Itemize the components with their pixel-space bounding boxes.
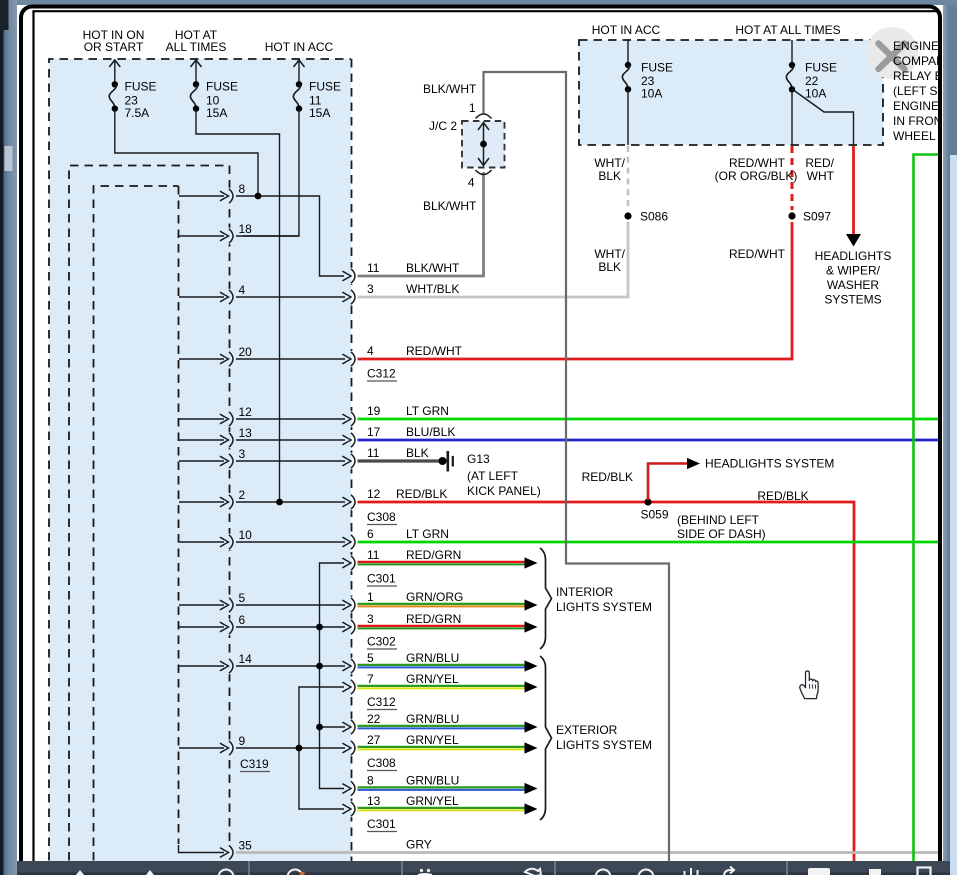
wire BLK/WHT	[358, 172, 484, 276]
fuse 11 15A	[293, 60, 341, 120]
wire RED/WHT to headlights arrow	[846, 146, 861, 247]
splice S097	[788, 210, 831, 224]
label HEADLIGHTS & WIPER/WASHER SYSTEMS	[815, 249, 892, 307]
label BLK/WHT (above J/C2)	[423, 82, 477, 96]
svg-text:(OR ORG/BLK): (OR ORG/BLK)	[715, 169, 798, 183]
label RED/WHT (below S097)	[729, 247, 786, 261]
svg-text:8: 8	[239, 182, 246, 196]
label 12 RED/BLK	[367, 487, 447, 501]
wire GRN/YEL 27	[358, 747, 525, 750]
svg-text:GRN/YEL: GRN/YEL	[406, 672, 459, 686]
svg-text:C302: C302	[367, 635, 396, 649]
wire fuse23 to node row8	[115, 109, 258, 196]
label 22 GRN/BLU	[367, 712, 459, 726]
connector C319 pin 12	[179, 405, 252, 427]
label HOT IN ON OR START	[83, 28, 145, 54]
svg-text:5: 5	[367, 651, 374, 665]
wire GRN/YEL 7	[358, 686, 525, 689]
label RED/BLK (right of S059)	[757, 489, 808, 503]
connector label C308 y=516.5	[367, 510, 397, 525]
label RED/BLK (left of S059)	[582, 470, 633, 484]
connector C319 pin 10	[179, 528, 252, 550]
ground G13	[439, 451, 491, 472]
svg-text:FUSE: FUSE	[206, 80, 238, 94]
svg-text:BLU/BLK: BLU/BLK	[406, 425, 455, 439]
svg-text:9: 9	[239, 734, 246, 748]
wire GRN/BLU 8	[358, 787, 525, 790]
exterior lights arrows	[525, 660, 538, 814]
svg-text:S097: S097	[803, 210, 831, 224]
label 1 GRN/ORG	[367, 590, 463, 604]
connector C319 pin 4	[179, 283, 246, 305]
wire RED to HEADLIGHTS SYSTEM	[648, 458, 700, 500]
connector arc right y=563	[343, 555, 360, 571]
wire row y=748	[236, 747, 345, 749]
label ENGINE COMPARTMENT RELAY BOX	[893, 39, 957, 143]
junction dot row2 fuse10	[276, 499, 283, 506]
wire fuse23(relay) down	[627, 89, 629, 145]
svg-text:RED/WHT: RED/WHT	[729, 156, 786, 170]
connector C319 pin 3	[179, 447, 246, 469]
label WHT/BLK (upper)	[594, 156, 625, 183]
svg-text:11: 11	[367, 446, 380, 460]
svg-text:RED/BLK: RED/BLK	[396, 487, 447, 501]
fuse 23 10A (relay box)	[622, 40, 673, 101]
svg-text:G13: G13	[467, 452, 490, 466]
svg-text:BLK: BLK	[406, 446, 429, 460]
wire row y=297	[236, 296, 345, 298]
svg-text:C301: C301	[367, 572, 396, 586]
svg-text:8: 8	[367, 774, 374, 788]
connector arc right y=297	[343, 289, 360, 305]
exterior bracket	[540, 656, 552, 820]
svg-text:22: 22	[367, 712, 381, 726]
svg-text:HEADLIGHTS: HEADLIGHTS	[815, 249, 892, 263]
fuse 22 10A (relay box)	[786, 40, 837, 101]
inner dashed box 3	[94, 186, 179, 875]
svg-text:FUSE: FUSE	[309, 80, 341, 94]
svg-text:WHT/: WHT/	[594, 247, 625, 261]
wire GRN/YEL 13	[358, 808, 525, 811]
svg-text:ENGINE: ENGINE	[893, 39, 939, 53]
wire BLK	[358, 459, 442, 462]
svg-text:10: 10	[239, 528, 253, 542]
connector label C312 y=373	[367, 367, 397, 382]
svg-text:(AT LEFT: (AT LEFT	[467, 469, 519, 483]
branch vertical B x=299	[296, 687, 344, 809]
interior lights arrows	[525, 557, 538, 632]
svg-text:OR START: OR START	[84, 40, 144, 54]
svg-text:GRN/BLU: GRN/BLU	[406, 712, 459, 726]
bottom toolbar	[17, 861, 950, 875]
svg-text:RED/GRN: RED/GRN	[406, 612, 461, 626]
svg-text:BLK/WHT: BLK/WHT	[423, 82, 477, 96]
connector C319 pin 13	[179, 426, 252, 448]
svg-text:KICK PANEL): KICK PANEL)	[467, 484, 541, 498]
svg-text:S059: S059	[640, 508, 668, 522]
wire fuse11 to pin18	[243, 109, 299, 236]
splice S086	[624, 210, 668, 224]
connector C319 pin 20	[179, 345, 252, 367]
svg-text:LIGHTS SYSTEM: LIGHTS SYSTEM	[556, 738, 652, 752]
label GRY	[406, 838, 432, 852]
wire row y=627	[236, 626, 345, 628]
label 3 RED/GRN	[367, 612, 461, 626]
label HEADLIGHTS SYSTEM	[705, 457, 834, 471]
connector C319 pin 6	[179, 613, 246, 635]
svg-text:LIGHTS SYSTEM: LIGHTS SYSTEM	[556, 600, 652, 614]
svg-text:WASHER: WASHER	[827, 278, 880, 292]
svg-text:GRN/BLU: GRN/BLU	[406, 774, 459, 788]
svg-text:18: 18	[239, 222, 253, 236]
svg-text:RED/GRN: RED/GRN	[406, 548, 461, 562]
svg-text:11: 11	[367, 548, 380, 562]
wire fuse22 diagonal branch	[792, 89, 854, 145]
wire RED/BLK	[358, 502, 855, 861]
connector arc right y=605	[343, 597, 360, 613]
svg-text:13: 13	[239, 426, 253, 440]
svg-text:HOT IN ACC: HOT IN ACC	[265, 40, 334, 54]
wire RED/WHT	[358, 222, 793, 359]
inner dashed box 2	[69, 166, 229, 875]
wire pin8 row	[236, 193, 344, 276]
connector label C319	[240, 757, 270, 772]
mouse cursor (hand)	[800, 671, 818, 699]
svg-text:15A: 15A	[206, 106, 227, 120]
svg-text:C308: C308	[367, 756, 396, 770]
label 11 BLK	[367, 446, 429, 460]
wire RED/WHT dashed above S097	[791, 146, 794, 210]
label HOT IN ACC (left)	[265, 40, 334, 54]
label 11 RED/GRN	[367, 548, 461, 562]
svg-text:HEADLIGHTS SYSTEM: HEADLIGHTS SYSTEM	[705, 457, 834, 471]
connector arc right y=627	[343, 619, 360, 635]
connector C319 pin 2	[179, 488, 246, 510]
svg-text:4: 4	[468, 176, 475, 190]
wire GRN/BLU 5	[358, 665, 525, 668]
connector arc right y=542	[343, 534, 360, 550]
svg-text:C308: C308	[367, 510, 396, 524]
svg-text:HOT IN ACC: HOT IN ACC	[592, 23, 661, 37]
svg-text:6: 6	[367, 527, 374, 541]
svg-text:4: 4	[239, 283, 246, 297]
label HOT AT ALL TIMES (left)	[166, 28, 227, 54]
svg-text:ALL TIMES: ALL TIMES	[166, 40, 227, 54]
right window edge strip	[943, 5, 950, 875]
svg-text:35: 35	[239, 839, 253, 853]
connector arc right y=809	[343, 801, 360, 817]
connector line C319 (dashed)	[229, 166, 231, 875]
svg-text:5: 5	[239, 591, 246, 605]
fuse 23 7.5A	[109, 60, 156, 120]
connector label C301 y=578	[367, 572, 397, 587]
svg-text:C312: C312	[367, 367, 396, 381]
label G13 location	[467, 469, 541, 498]
svg-text:GRN/YEL: GRN/YEL	[406, 794, 459, 808]
wire row y=359	[236, 358, 345, 360]
connector arc right y=419	[343, 411, 360, 427]
svg-text:1: 1	[469, 101, 476, 115]
splice S059	[640, 498, 668, 521]
svg-text:10A: 10A	[805, 87, 826, 101]
svg-text:17: 17	[367, 425, 381, 439]
label BLK/WHT (below J/C2)	[423, 199, 477, 213]
connector arc right y=359	[343, 351, 360, 367]
label 19 LT GRN	[367, 404, 449, 418]
wire row y=461	[236, 460, 345, 462]
svg-text:19: 19	[367, 404, 381, 418]
svg-text:FUSE: FUSE	[125, 80, 157, 94]
svg-text:FUSE: FUSE	[641, 60, 673, 74]
label 27 GRN/YEL	[367, 733, 459, 747]
label 17 BLU/BLK	[367, 425, 455, 439]
svg-text:GRN/ORG: GRN/ORG	[406, 590, 463, 604]
svg-text:GRN/YEL: GRN/YEL	[406, 733, 459, 747]
label 11 BLK/WHT	[367, 261, 460, 275]
wire WHT/BLK	[358, 222, 629, 297]
connector C319 pin 8	[179, 182, 246, 204]
svg-text:LT GRN: LT GRN	[406, 527, 449, 541]
wire row y=440	[236, 439, 345, 441]
svg-text:13: 13	[367, 794, 381, 808]
svg-text:WHT/: WHT/	[594, 156, 625, 170]
connector arc right y=666	[343, 658, 360, 674]
label HOT IN ACC (right box)	[592, 23, 661, 37]
svg-text:20: 20	[239, 345, 253, 359]
relay box (top right, dashed)	[579, 40, 883, 145]
toolbar icons	[76, 867, 931, 875]
label 3 WHT/BLK	[367, 282, 459, 296]
interior bracket	[540, 548, 552, 649]
svg-text:INTERIOR: INTERIOR	[556, 585, 614, 599]
wire row y=419	[236, 418, 345, 420]
label RED/WHT (right branch)	[805, 156, 834, 183]
connector arc right y=687	[343, 679, 360, 695]
junction connector J/C 2	[429, 101, 505, 190]
svg-text:C301: C301	[367, 817, 396, 831]
svg-text:BLK/WHT: BLK/WHT	[406, 261, 460, 275]
connector arc right y=502	[343, 494, 360, 510]
svg-text:RED/WHT: RED/WHT	[729, 247, 786, 261]
branch vertical A x=319.5	[316, 563, 345, 789]
svg-text:7.5A: 7.5A	[125, 106, 150, 120]
connector C319 pin 9	[179, 734, 246, 756]
svg-text:WHT: WHT	[807, 169, 835, 183]
connector arc right y=440	[343, 432, 360, 448]
svg-text:SIDE OF DASH): SIDE OF DASH)	[677, 527, 766, 541]
svg-text:LT GRN: LT GRN	[406, 404, 449, 418]
wire fuse22(relay) down	[791, 89, 793, 145]
toolbar dividers	[249, 861, 787, 875]
svg-text:RED/: RED/	[805, 156, 834, 170]
wire RED/GRN 3	[358, 626, 525, 629]
connector arc right y=461	[343, 453, 360, 469]
svg-text:2: 2	[239, 488, 246, 502]
svg-text:& WIPER/: & WIPER/	[826, 264, 881, 278]
svg-text:HOT AT ALL TIMES: HOT AT ALL TIMES	[735, 23, 840, 37]
label 8 GRN/BLU	[367, 774, 459, 788]
svg-text:3: 3	[367, 282, 374, 296]
svg-text:BLK/WHT: BLK/WHT	[423, 199, 477, 213]
wire BLU/BLK	[358, 439, 940, 442]
label 5 GRN/BLU	[367, 651, 459, 665]
wire LT GRN 6	[358, 541, 940, 544]
svg-text:10A: 10A	[641, 87, 662, 101]
connector label C312 y=701.5	[367, 695, 397, 710]
svg-text:RED/WHT: RED/WHT	[406, 344, 463, 358]
svg-text:RED/BLK: RED/BLK	[757, 489, 808, 503]
svg-text:4: 4	[367, 344, 374, 358]
svg-text:WHT/BLK: WHT/BLK	[406, 282, 459, 296]
label 4 RED/WHT	[367, 344, 463, 358]
fuse panel box (left, dashed)	[49, 59, 351, 869]
svg-text:RED/BLK: RED/BLK	[582, 470, 633, 484]
connector arc right y=788.5	[343, 780, 360, 796]
label 7 GRN/YEL	[367, 672, 459, 686]
svg-text:BLK: BLK	[598, 169, 621, 183]
svg-text:7: 7	[367, 672, 374, 686]
svg-text:6: 6	[239, 613, 246, 627]
fuse 10 15A	[190, 60, 238, 120]
connector C319 pin 14	[179, 652, 252, 674]
wire fuse10 to node row2	[196, 109, 280, 502]
wire LT GRN 19	[358, 418, 940, 421]
svg-text:27: 27	[367, 733, 381, 747]
label BEHIND LEFT SIDE OF DASH	[677, 513, 766, 541]
label RED/WHT (OR ORG/BLK)	[715, 156, 798, 183]
wire row y=542	[236, 541, 345, 543]
svg-text:GRY: GRY	[406, 838, 432, 852]
svg-text:11: 11	[367, 261, 380, 275]
wire WHT/BLK dashed above S086	[627, 146, 630, 210]
svg-text:C312: C312	[367, 695, 396, 709]
svg-text:15A: 15A	[309, 106, 330, 120]
wire pin18 row	[236, 235, 299, 237]
close button	[866, 27, 918, 79]
svg-text:12: 12	[239, 405, 253, 419]
label INTERIOR LIGHTS SYSTEM	[556, 585, 652, 614]
component box outline (green, right)	[914, 155, 940, 862]
svg-text:1: 1	[367, 590, 374, 604]
svg-text:BLK: BLK	[598, 260, 621, 274]
svg-text:3: 3	[367, 612, 374, 626]
label 13 GRN/YEL	[367, 794, 459, 808]
svg-text:EXTERIOR: EXTERIOR	[556, 723, 618, 737]
connector label C301 y=823.5	[367, 817, 397, 832]
svg-text:S086: S086	[640, 210, 668, 224]
svg-text:12: 12	[367, 487, 381, 501]
top window edge strip	[17, 0, 957, 5]
svg-text:GRN/BLU: GRN/BLU	[406, 651, 459, 665]
connector arc right y=748	[343, 740, 360, 756]
svg-text:14: 14	[239, 652, 253, 666]
wire RED/GRN 11	[358, 562, 525, 565]
wire BLK/WHT from J/C2 pin1 long vertical	[484, 72, 670, 861]
connector C319 pin 5	[179, 591, 246, 613]
label HOT AT ALL TIMES (right box)	[735, 23, 840, 37]
svg-text:(BEHIND LEFT: (BEHIND LEFT	[677, 513, 760, 527]
connector C319 pin 18	[179, 222, 252, 244]
label WHT/BLK (lower)	[594, 247, 625, 274]
svg-text:SYSTEMS: SYSTEMS	[824, 293, 881, 307]
connector label C308 y=762.5	[367, 756, 397, 771]
left window edge strip	[0, 0, 4, 875]
connector arc right y=727	[343, 719, 360, 735]
svg-text:J/C 2: J/C 2	[429, 119, 457, 133]
wire GRN/BLU 22	[358, 726, 525, 729]
label 6 LT GRN	[367, 527, 449, 541]
wire row y=666	[236, 665, 345, 667]
connector label C302 y=641	[367, 635, 397, 650]
wire row y=502	[236, 501, 345, 503]
svg-text:FUSE: FUSE	[805, 60, 837, 74]
wire GRY	[236, 851, 939, 854]
svg-text:3: 3	[239, 447, 246, 461]
inner box 3 right edge dashed	[178, 186, 180, 844]
connector line C312/C308/C301/C302 (dashed, outer box right edge)	[351, 59, 353, 875]
svg-text:C319: C319	[240, 757, 269, 771]
connector C319 pin 35	[179, 839, 253, 861]
connector arc right y=276	[343, 268, 360, 284]
wire row y=605	[236, 604, 345, 606]
label EXTERIOR LIGHTS SYSTEM	[556, 723, 652, 752]
wire GRN/ORG	[358, 604, 525, 607]
